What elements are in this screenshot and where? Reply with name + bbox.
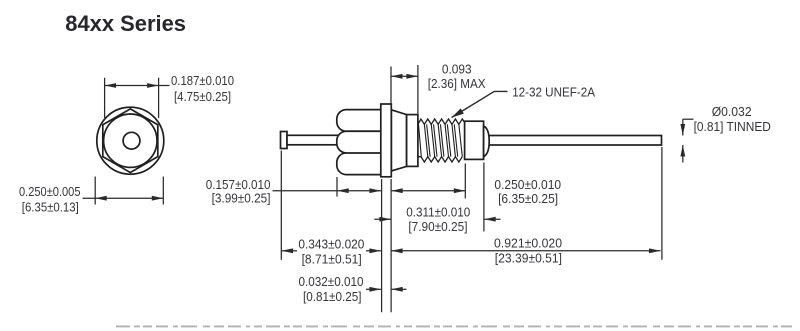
svg-text:0.187±0.010: 0.187±0.010 bbox=[171, 74, 234, 88]
svg-text:[0.81] TINNED: [0.81] TINNED bbox=[694, 120, 771, 134]
svg-text:0.250±0.010: 0.250±0.010 bbox=[494, 178, 561, 192]
svg-text:12-32 UNEF-2A: 12-32 UNEF-2A bbox=[512, 85, 595, 99]
svg-text:[2.36] MAX: [2.36] MAX bbox=[428, 77, 486, 91]
svg-text:0.921±0.020: 0.921±0.020 bbox=[494, 236, 562, 250]
svg-text:0.157±0.010: 0.157±0.010 bbox=[206, 178, 271, 192]
svg-text:0.250±0.005: 0.250±0.005 bbox=[19, 185, 81, 199]
svg-text:[6.35±0.13]: [6.35±0.13] bbox=[22, 201, 79, 215]
svg-text:0.343±0.020: 0.343±0.020 bbox=[298, 238, 364, 252]
svg-text:Ø0.032: Ø0.032 bbox=[712, 105, 752, 119]
svg-text:[3.99±0.25]: [3.99±0.25] bbox=[212, 192, 271, 206]
svg-text:[23.39±0.51]: [23.39±0.51] bbox=[495, 251, 562, 265]
svg-text:84xx Series: 84xx Series bbox=[65, 11, 186, 36]
svg-text:[7.90±0.25]: [7.90±0.25] bbox=[408, 220, 467, 234]
svg-text:[8.71±0.51]: [8.71±0.51] bbox=[302, 252, 362, 266]
svg-text:[4.75±0.25]: [4.75±0.25] bbox=[174, 90, 231, 104]
svg-text:0.093: 0.093 bbox=[442, 62, 472, 76]
svg-text:0.032±0.010: 0.032±0.010 bbox=[299, 275, 364, 289]
svg-text:[6.35±0.25]: [6.35±0.25] bbox=[498, 192, 558, 206]
svg-text:0.311±0.010: 0.311±0.010 bbox=[406, 205, 470, 219]
svg-text:[0.81±0.25]: [0.81±0.25] bbox=[303, 290, 362, 304]
